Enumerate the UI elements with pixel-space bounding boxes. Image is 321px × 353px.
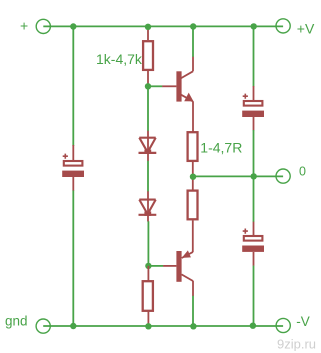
wire node A to Q1 base bbox=[148, 85, 162, 87]
node bottom rail x=73 bbox=[70, 323, 76, 329]
wire left column (x=73) upper bbox=[72, 27, 74, 147]
wire right column (x=253) upper bbox=[253, 27, 255, 87]
node bottom rail x=193 bbox=[190, 323, 196, 329]
wire D2 to node B bbox=[147, 221, 149, 266]
node bottom rail x=253 bbox=[250, 323, 256, 329]
node top rail x=73 bbox=[70, 23, 76, 29]
wire node B to Q2 base bbox=[148, 265, 163, 267]
bottom rail wire (gnd to -V) bbox=[43, 325, 283, 327]
wire D1 to D2 bbox=[147, 161, 149, 192]
resistor R4 bbox=[143, 266, 153, 327]
node bottom rail x=148 bbox=[145, 323, 151, 329]
node B (base of Q2, top of R4) bbox=[145, 263, 151, 269]
svg-text:9zip.ru: 9zip.ru bbox=[277, 337, 316, 352]
resistor R3 bbox=[188, 191, 198, 252]
node top rail x=253 bbox=[251, 23, 257, 29]
svg-text:1-4,7R: 1-4,7R bbox=[200, 139, 242, 155]
wire C2 to output node row bbox=[253, 130, 255, 222]
node top rail x=193 bbox=[190, 23, 196, 29]
node top rail x=148 bbox=[145, 24, 151, 30]
svg-text:-V: -V bbox=[296, 314, 310, 329]
terminal + bbox=[20, 17, 50, 33]
svg-text:gnd: gnd bbox=[5, 313, 28, 328]
capacitor C3 (bottom right electrolytic) bbox=[242, 222, 264, 266]
wire node A down to D1 bbox=[147, 86, 149, 131]
diode D2 bbox=[139, 191, 157, 221]
resistor R2 bbox=[188, 132, 198, 190]
wire Q1 collector net (x=193 top) bbox=[192, 27, 194, 58]
resistor R1 bbox=[143, 27, 153, 87]
wire Q2 collector to bottom rail bbox=[192, 296, 194, 327]
wire C3 to bottom rail bbox=[253, 266, 255, 326]
svg-text:0: 0 bbox=[299, 164, 306, 178]
node C (output node between R2 and R3) bbox=[190, 174, 196, 180]
wire left column lower bbox=[72, 190, 74, 326]
diode D1 bbox=[139, 131, 157, 161]
terminal +V bbox=[276, 19, 315, 37]
svg-text:+: + bbox=[20, 17, 28, 33]
transistor Q2 (PNP) bbox=[163, 250, 193, 296]
capacitor C2 (top right electrolytic) bbox=[242, 86, 264, 131]
top rail wire (+ to +V) bbox=[43, 25, 283, 27]
capacitor C1 (left electrolytic) bbox=[62, 145, 84, 191]
terminal 0 bbox=[276, 164, 306, 183]
svg-text:1k-4,7k: 1k-4,7k bbox=[96, 51, 143, 67]
node D (output rail at right column) bbox=[251, 173, 257, 179]
transistor Q1 (NPN) bbox=[162, 57, 193, 132]
wire output node to 0 terminal bbox=[193, 175, 283, 177]
terminal -V bbox=[276, 314, 310, 333]
svg-text:+V: +V bbox=[297, 20, 315, 36]
terminal gnd bbox=[5, 313, 50, 333]
node A (base of Q1, top of D1) bbox=[145, 83, 151, 89]
